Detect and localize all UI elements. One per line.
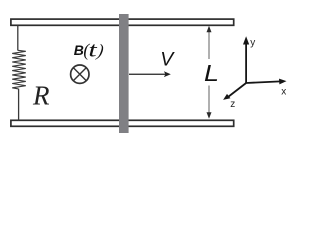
coordinate axes: y axis (245, 42, 247, 83)
length dimension line upper segment (arrow up) (208, 29, 210, 60)
coordinate axes: z axis (228, 83, 246, 97)
svg-text:y: y (250, 38, 255, 49)
svg-text:R: R (32, 80, 50, 110)
svg-text:V: V (160, 49, 175, 71)
length dimension line lower segment (arrow down) (208, 86, 210, 117)
svg-text:z: z (230, 99, 235, 110)
svg-text:L: L (204, 60, 219, 86)
sliding rod (gray bar) (119, 14, 129, 133)
resistor R1 coil (12, 50, 26, 89)
top rail (11, 19, 234, 25)
velocity arrow V (129, 73, 166, 75)
wire (left, from top rail to resistor) (17, 26, 19, 51)
coordinate axes: x axis (246, 81, 280, 83)
wire (left, from resistor to bottom rail) (18, 89, 20, 121)
bottom rail (11, 120, 234, 126)
field into page symbol (circle with X) (71, 65, 89, 83)
svg-text:x: x (281, 87, 286, 98)
